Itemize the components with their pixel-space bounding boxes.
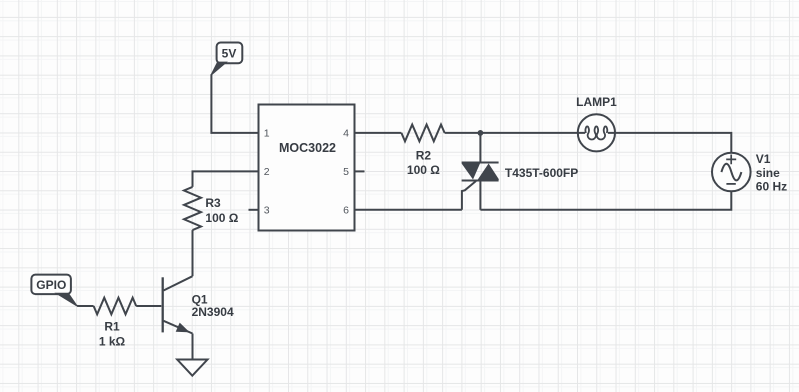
triac MT1 riser	[479, 181, 481, 210]
transistor Q1 emitter arrow	[177, 324, 189, 332]
wire GPIO to R1	[77, 305, 94, 307]
transistor Q1	[164, 276, 193, 290]
wire R1 to Q1 base	[136, 305, 161, 307]
source V1 minus	[726, 183, 735, 185]
source V1 body	[712, 153, 751, 192]
wire U1 pin 2 to R3 top	[193, 171, 259, 187]
triac right triangle	[478, 164, 499, 180]
wire lamp to V1 plus	[608, 133, 731, 153]
resistor R1 zigzag	[94, 298, 137, 315]
wire U1 pin 6 to triac gate	[355, 209, 462, 211]
svg-text:60 Hz: 60 Hz	[756, 180, 787, 194]
wire U1 pin 4 to R2	[355, 132, 402, 134]
resistor R3 zigzag	[184, 187, 201, 230]
source V1 sine	[721, 164, 741, 181]
junction node R2/triac/lamp	[478, 130, 484, 136]
svg-text:LAMP1: LAMP1	[576, 95, 617, 109]
source V1 plus	[726, 155, 736, 165]
svg-text:sine: sine	[756, 166, 780, 180]
wire 5V tail to U1 pin 1	[211, 74, 258, 133]
net label 5V flag	[217, 43, 243, 64]
svg-text:2: 2	[264, 166, 270, 178]
U1 pin 5 stub	[355, 170, 365, 172]
svg-text:1: 1	[264, 128, 270, 140]
triac left triangle	[462, 164, 480, 180]
svg-text:6: 6	[343, 205, 349, 217]
svg-text:5: 5	[343, 166, 349, 178]
triac gate	[462, 181, 476, 210]
triac bottom bar	[462, 180, 499, 182]
wire R3 bottom to Q1 collector	[192, 230, 194, 276]
net label GPIO flag	[31, 275, 71, 295]
svg-text:R3: R3	[205, 196, 221, 210]
svg-text:100 Ω: 100 Ω	[205, 211, 238, 225]
svg-text:1 kΩ: 1 kΩ	[99, 334, 126, 348]
svg-text:T435T-600FP: T435T-600FP	[505, 166, 578, 180]
svg-text:V1: V1	[756, 152, 771, 166]
svg-text:R1: R1	[104, 320, 120, 334]
triac MT2 riser	[479, 133, 481, 163]
svg-text:2N3904: 2N3904	[192, 305, 234, 319]
svg-text:5V: 5V	[222, 47, 237, 61]
op-coupler U1 MOC3022 box	[259, 105, 355, 231]
svg-text:100 Ω: 100 Ω	[407, 163, 440, 177]
resistor R2 zigzag	[401, 124, 444, 141]
triac top bar	[462, 162, 499, 164]
svg-text:R2: R2	[416, 148, 432, 162]
svg-text:MOC3022: MOC3022	[279, 141, 336, 155]
wire triac MT1 to V1 minus	[480, 191, 731, 210]
svg-text:4: 4	[343, 128, 349, 140]
lamp LAMP1 filament	[585, 126, 607, 139]
wire R2 to junction to lamp	[445, 132, 585, 134]
lamp LAMP1 body	[578, 114, 615, 151]
svg-text:GPIO: GPIO	[36, 278, 66, 292]
U1 pin 3 stub	[249, 209, 259, 211]
svg-text:3: 3	[264, 205, 270, 217]
ground	[177, 360, 207, 376]
